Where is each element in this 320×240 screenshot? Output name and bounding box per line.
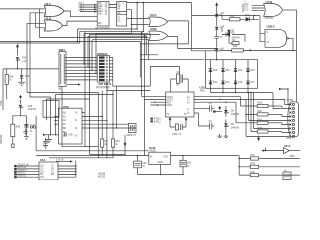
or-gate U7:B <box>264 0 283 20</box>
or-gate U3:C <box>44 2 64 17</box>
wire L mid <box>205 51 207 60</box>
wire junction with down arrow <box>124 135 127 156</box>
resistor R23 <box>111 139 120 147</box>
svg-text:T1OUT·14: T1OUT·14 <box>17 164 29 166</box>
svg-text:V-: V- <box>187 109 189 111</box>
resistor R14 <box>222 16 245 21</box>
svg-text:D15: D15 <box>22 58 27 60</box>
IC U1 <box>96 2 111 30</box>
wire left bus turn <box>27 92 98 157</box>
buffer output wire <box>290 150 301 152</box>
svg-text:DB9: DB9 <box>287 138 292 140</box>
label G7 <box>221 13 225 19</box>
wire DIP lower bus <box>107 82 150 91</box>
wire SW4 left input <box>3 68 59 70</box>
resistor R9 <box>101 139 109 147</box>
svg-text:↑↑↑: ↑↑↑ <box>244 0 247 3</box>
nested corner wire A <box>56 94 114 135</box>
U13 right pin wires <box>58 161 77 178</box>
capacitor C47 <box>24 116 36 137</box>
svg-text:DSW4C: DSW4C <box>98 52 108 56</box>
svg-text:R23: R23 <box>115 141 120 143</box>
junction dots buses <box>141 33 145 39</box>
crystal X1 <box>176 72 183 87</box>
wires SW4 to DIP rows <box>65 58 97 80</box>
U7:B input labels <box>243 0 265 12</box>
wire input bus A <box>0 8 45 10</box>
vertical bus x113 <box>112 91 114 158</box>
vertical feed bottom-right <box>239 156 240 176</box>
capacitor C41 <box>180 156 192 175</box>
power arrow VCC chain <box>215 2 218 13</box>
wire bus y150.8 <box>36 116 149 151</box>
staircase wire 2 <box>0 3 143 44</box>
svg-text:U3:A: U3:A <box>150 13 157 17</box>
svg-text:C-: C- <box>187 100 190 102</box>
bus wires U12 to right <box>194 97 285 103</box>
capacitor with ground x45 <box>43 138 48 148</box>
wire loop crystal frame <box>140 60 179 86</box>
svg-text:C41: C41 <box>187 162 192 164</box>
svg-text:MC: MC <box>98 23 102 25</box>
svg-text:R2C: R2C <box>258 111 263 113</box>
resistor R3A <box>239 171 300 177</box>
svg-text:C40: C40 <box>69 135 74 137</box>
svg-text:R39: R39 <box>16 127 21 129</box>
svg-text:RA4: RA4 <box>98 10 103 13</box>
diode D10 <box>209 69 218 72</box>
power arrow up left <box>16 44 19 56</box>
wire feeds to resistor rows <box>236 92 257 132</box>
wire U2:C output <box>288 10 296 102</box>
and-gate U3:B <box>149 27 168 40</box>
svg-text:XTAL1: XTAL1 <box>154 118 162 121</box>
rotated label MAX <box>0 134 3 144</box>
svg-text:74HC32: 74HC32 <box>265 18 274 20</box>
wire bus y157.8 <box>49 157 113 159</box>
and-gate U3:A <box>149 13 168 26</box>
diode D5 <box>215 13 223 18</box>
wire left vertical <box>2 69 4 110</box>
diode right column small <box>227 29 235 33</box>
staircase wire 3 <box>83 9 131 64</box>
wire U7:B output down right edge <box>283 9 297 11</box>
ground bus bottom <box>138 174 184 175</box>
terminal mark under R39 <box>12 144 15 147</box>
wire array bottom to arrow line <box>211 88 282 108</box>
svg-text:U7B: U7B <box>63 105 69 109</box>
svg-text:C2-: C2- <box>40 174 44 176</box>
svg-text:SW4: SW4 <box>59 48 66 52</box>
svg-text:R34: R34 <box>9 77 14 79</box>
wire gate2 input A <box>27 23 45 92</box>
svg-text:R1B: R1B <box>258 103 263 105</box>
zener D18 <box>19 101 37 111</box>
regulator output wire <box>171 155 240 156</box>
svg-text:C1-: C1- <box>40 169 44 171</box>
zener D15 <box>16 57 27 69</box>
diode D16b <box>246 69 255 72</box>
wire left bus 2 turn <box>30 97 51 135</box>
svg-text:7660: 7660 <box>200 91 206 93</box>
svg-text:GND: GND <box>158 162 163 164</box>
wire chain to bus <box>216 51 217 60</box>
diode D11 <box>209 81 218 84</box>
svg-text:1N4148: 1N4148 <box>231 114 240 116</box>
resistor R2B <box>257 128 282 133</box>
svg-text:C42: C42 <box>142 163 147 165</box>
resonator X2 <box>127 124 137 138</box>
wire U2 top output <box>127 2 192 4</box>
diode D14 <box>234 69 243 72</box>
ground symbols under caps <box>218 134 222 138</box>
svg-text:R1A: R1A <box>258 118 263 121</box>
IC U12 <box>166 92 194 117</box>
diode D15a <box>234 81 243 84</box>
IC U13 <box>39 158 58 180</box>
diode array box <box>206 60 258 89</box>
connector J1 DB9 <box>287 100 299 137</box>
ground arrow DIP <box>67 83 81 85</box>
svg-text:1N4733: 1N4733 <box>28 109 37 111</box>
svg-text:D14: D14 <box>238 70 243 72</box>
svg-text:SW DIP-8: SW DIP-8 <box>99 82 112 86</box>
svg-text:RST: RST <box>167 102 172 104</box>
svg-text:D13: D13 <box>225 82 230 84</box>
arrow feed to connector pin1 <box>279 88 290 105</box>
svg-text:CON9: CON9 <box>287 100 294 102</box>
svg-text:D10: D10 <box>213 70 218 72</box>
svg-text:OS1: OS1 <box>98 14 103 16</box>
nested corner wire B <box>47 99 91 120</box>
IC U2 <box>117 2 127 27</box>
svg-text:OSC1: OSC1 <box>167 97 174 99</box>
svg-text:OSC2: OSC2 <box>167 100 174 102</box>
svg-text:SY1: SY1 <box>244 7 249 9</box>
resistor R34 <box>5 69 14 99</box>
resistor R7B <box>239 164 300 169</box>
wire U3:C output to U1 <box>64 11 97 17</box>
svg-text:GND·15: GND·15 <box>17 176 26 178</box>
svg-text:R2IN·8: R2IN·8 <box>17 173 25 175</box>
ground arrow under R2B <box>257 136 260 142</box>
resistor R39 <box>11 116 21 144</box>
svg-text:D16: D16 <box>250 70 255 72</box>
capacitor in chain <box>215 36 224 39</box>
svg-text:SY0: SY0 <box>244 4 249 6</box>
svg-text:XTAL·Y1: XTAL·Y1 <box>172 133 182 136</box>
svg-text:U2B:C: U2B:C <box>267 24 276 28</box>
diode D4 <box>215 48 223 51</box>
capacitor C3 <box>207 103 214 112</box>
svg-text:1N4148: 1N4148 <box>231 127 240 129</box>
svg-text:A(0..): A(0..) <box>79 9 85 12</box>
svg-text:R10: R10 <box>233 46 238 48</box>
staircase wire 5 <box>91 40 148 71</box>
and-gate U2:C <box>265 24 288 47</box>
wire horizontal bus y33 <box>95 33 148 74</box>
svg-text:U13: U13 <box>40 158 46 162</box>
buffer U5:A <box>284 144 296 158</box>
vertical bus x108.5 <box>106 86 108 158</box>
zener D9 <box>224 120 239 134</box>
svg-text:D11: D11 <box>213 82 218 84</box>
svg-text:L·(0..4): L·(0..4) <box>56 159 64 161</box>
svg-text:C2+: C2+ <box>40 171 45 173</box>
svg-text:T2OUT·7: T2OUT·7 <box>17 170 27 172</box>
wire <box>216 30 218 36</box>
svg-text:U3:D: U3:D <box>45 16 52 20</box>
resistor network SW4 <box>58 48 66 91</box>
wire with tick <box>252 15 258 20</box>
connector pins <box>289 103 294 137</box>
wires U1 to U2 <box>109 5 117 8</box>
wire into U2:C region <box>258 16 265 42</box>
svg-text:D18: D18 <box>28 106 33 108</box>
wire U3:B output <box>168 36 215 50</box>
label C40 <box>69 135 74 137</box>
wire U3:D output to U1 <box>63 21 98 26</box>
diode D13 <box>221 81 230 84</box>
ground U7 <box>45 135 52 143</box>
svg-text:1M: 1M <box>58 88 61 90</box>
wire jogs to connector <box>282 99 290 132</box>
label under connector <box>287 138 292 140</box>
svg-text:OUT: OUT <box>164 157 169 159</box>
ground 2 <box>224 134 228 138</box>
vertical bus x118.2 <box>116 86 118 128</box>
svg-text:IN: IN <box>150 157 153 159</box>
wire long horizontal to diode array <box>140 59 204 61</box>
resistor R2C <box>257 111 282 116</box>
capacitor C4b <box>207 121 214 130</box>
wire DIP common to right <box>113 85 151 87</box>
svg-text:R3A: R3A <box>251 171 256 174</box>
wire horizontal bus y37.5 <box>39 9 148 38</box>
wires U3:A inputs <box>127 19 149 26</box>
wire U3:A output <box>140 21 188 44</box>
resistor R10 <box>221 46 248 52</box>
svg-text:U5:A: U5:A <box>284 144 291 148</box>
power arrow down to D18 <box>19 95 22 102</box>
diode D17 <box>246 81 255 84</box>
diode D10 inline <box>245 15 253 21</box>
label LM339 <box>98 174 106 179</box>
svg-text:MAX232: MAX232 <box>0 134 3 144</box>
resistor R4C <box>239 155 300 160</box>
wire <box>216 18 218 26</box>
rotated label TXD <box>1 99 3 106</box>
dip switch SW DIP-8 <box>96 52 111 89</box>
wire rect frame mid-left <box>43 101 59 118</box>
svg-text:R7B: R7B <box>251 164 256 166</box>
ground under D16 <box>18 82 26 85</box>
header circles Y2 <box>30 126 36 133</box>
U1 input pin wires with labels <box>79 2 98 12</box>
svg-text:R14: R14 <box>230 16 235 18</box>
svg-text:SY2: SY2 <box>244 9 249 11</box>
wire loop left <box>85 31 98 146</box>
svg-text:D16: D16 <box>25 76 30 78</box>
diode D12 <box>221 69 230 72</box>
svg-text:R1IN·13: R1IN·13 <box>17 167 26 169</box>
svg-text:D10: D10 <box>245 15 250 17</box>
U12 bottom pins and crystal Y1 <box>169 117 187 136</box>
crystal loop wires <box>171 79 189 92</box>
svg-text:AD232: AD232 <box>98 176 106 179</box>
wire array verticals <box>211 60 249 89</box>
zener D6b <box>224 106 239 117</box>
wire bus y155.6 <box>36 155 149 157</box>
diode D16 <box>20 69 30 82</box>
junction dots staircase bends <box>136 28 146 37</box>
svg-text:VS+: VS+ <box>40 177 45 179</box>
power arrow down <box>218 106 221 110</box>
U12 left pin wires <box>142 97 166 106</box>
wire SW4 bottom down <box>62 86 98 146</box>
ground under C47 <box>24 137 29 140</box>
vertical bus x102 <box>101 91 103 156</box>
connector J5 <box>283 170 291 179</box>
svg-text:(8)(7)(6)(5)(4): (8)(7)(6)(5)(4) <box>96 87 110 89</box>
wire <box>216 38 218 47</box>
label U12 <box>200 86 206 93</box>
svg-text:GND: GND <box>167 105 172 107</box>
regulator ground pin <box>160 164 162 174</box>
diode D6 upper <box>222 32 245 39</box>
or-gate U3:D <box>44 16 63 31</box>
svg-text:D12: D12 <box>225 70 230 72</box>
label G6 <box>221 27 225 32</box>
U7 left pins <box>43 116 59 136</box>
arrow right at collector top <box>56 159 73 162</box>
svg-text:D15: D15 <box>238 82 243 84</box>
svg-text:78L05: 78L05 <box>149 151 156 153</box>
buffer input wire with term <box>261 148 283 152</box>
resistor R1A <box>257 118 282 124</box>
IC U7 <box>59 105 83 144</box>
svg-text:U7:B: U7:B <box>266 0 273 4</box>
diode D8 <box>215 27 223 30</box>
svg-text:4050: 4050 <box>290 156 296 158</box>
svg-text:TXD1: TXD1 <box>1 99 3 106</box>
wires DIP right pins <box>109 58 112 87</box>
U12 right pin wires to caps <box>194 108 207 126</box>
long vertical bus pair to U12 <box>141 32 145 156</box>
svg-text:R4C: R4C <box>251 155 256 157</box>
svg-text:D17: D17 <box>250 82 255 84</box>
svg-text:4MHz·XT: 4MHz·XT <box>127 135 137 137</box>
wire connector lower feeds <box>245 92 289 136</box>
svg-text:U3:B: U3:B <box>150 27 157 31</box>
ground symbol top bottom-left <box>23 129 28 135</box>
staircase wire 4 <box>87 36 158 68</box>
capacitor C42 <box>134 155 147 174</box>
wire loop inner <box>89 34 160 154</box>
svg-text:XTAL2: XTAL2 <box>154 120 162 123</box>
tag feed D6 <box>213 111 222 113</box>
svg-text:U3:C: U3:C <box>45 2 52 6</box>
wire R10 to right edge <box>248 49 296 51</box>
svg-text:C1+: C1+ <box>40 166 45 168</box>
wire gate2 input B <box>30 13 36 97</box>
resistor R1 small <box>229 33 239 45</box>
U13 left pin wires with labels <box>14 164 39 178</box>
svg-text:IC30: IC30 <box>149 146 155 150</box>
resistor R1B <box>257 103 282 108</box>
voltage regulator U14 <box>149 146 171 165</box>
U7 right pin wires <box>82 113 136 129</box>
svg-text:LM339: LM339 <box>98 174 106 176</box>
wire <box>244 35 246 42</box>
staircase wire 1 <box>0 3 140 60</box>
wire bus y154.4 <box>89 153 125 155</box>
wire top-right frame <box>192 3 261 51</box>
wire to lower left net <box>13 110 27 116</box>
svg-text:U12: U12 <box>200 86 206 90</box>
XTAL tag labels <box>151 118 162 124</box>
wire input bus B <box>36 13 45 28</box>
